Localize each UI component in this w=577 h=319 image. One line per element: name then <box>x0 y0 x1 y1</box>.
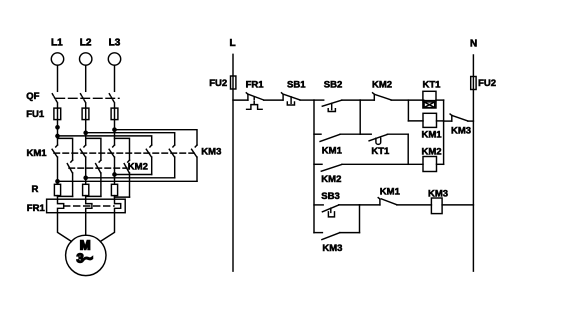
terminal circle L1 <box>51 53 63 65</box>
svg-text:SB3: SB3 <box>321 191 339 202</box>
wire L1 to QF <box>57 65 59 91</box>
svg-text:KM1: KM1 <box>380 187 401 198</box>
terminal circle L3 <box>108 53 120 65</box>
contactor KM3 label <box>201 147 221 158</box>
wire rung1 L to FR1 contact <box>233 99 248 101</box>
wire FR1 to motor phase2 <box>85 213 87 236</box>
pushbutton SB2 NO start <box>314 100 360 111</box>
coil KM2 label <box>422 146 442 157</box>
svg-text:R: R <box>32 184 39 195</box>
terminal circle L2 <box>80 53 92 65</box>
thermal relay FR1 heater phase3 <box>115 199 121 213</box>
wire stub phase3 to KM2 pole3 <box>115 138 130 160</box>
wire bus phase3 to KM3 pole3 <box>115 130 198 145</box>
svg-text:KM3: KM3 <box>451 126 471 137</box>
junction dot phase3 above R <box>113 173 116 176</box>
junction dot phase1 upper <box>56 126 59 129</box>
wire KM3 pole3 out to phase1 node <box>58 180 198 182</box>
contact KM2 NC label <box>372 80 392 91</box>
fuse FU1 label <box>26 109 45 120</box>
coil KM3 <box>431 198 473 214</box>
pushbutton SB1 label <box>287 80 306 91</box>
coil KM3 label <box>428 189 448 200</box>
contact KM3 NC label <box>451 126 471 137</box>
breaker QF label <box>26 91 39 102</box>
contact KM3 NO label branch <box>322 243 342 254</box>
contactor KM1 label <box>27 148 48 159</box>
svg-text:N: N <box>470 39 477 50</box>
contact KM1 NO label rung2 <box>322 145 343 156</box>
breaker QF pole 2 <box>81 94 86 108</box>
contactor KM2 pole 3 <box>124 160 129 197</box>
resistor R phase3 <box>111 184 117 195</box>
svg-text:SB1: SB1 <box>287 80 306 91</box>
wire stub phase2 to KM2 pole2 <box>86 138 101 160</box>
wire R3 to FR1 <box>114 196 116 200</box>
thermal contact FR1 release symbol <box>247 98 263 110</box>
svg-text:L: L <box>230 38 236 49</box>
fuse FU2 on L line <box>231 76 236 89</box>
wire KM3 pole2 out to phase2 node <box>86 177 175 179</box>
junction dot phase1 above R <box>56 180 59 183</box>
contact KM2 NO label rung3 <box>321 174 341 185</box>
contactor KM1 pole 3 <box>109 145 114 184</box>
pushbutton SB3 label <box>321 191 339 202</box>
svg-text:FU2: FU2 <box>478 78 496 89</box>
wire L line <box>232 54 234 271</box>
coil KM1 <box>423 113 444 127</box>
contactor KM1-KM3 mechanical link dashed <box>54 152 194 154</box>
wire stub phase1 to KM2 pole1 <box>58 138 73 160</box>
pushbutton SB3 NO <box>314 205 360 217</box>
svg-text:L3: L3 <box>109 38 121 49</box>
contact KM3 NO parallel SB3 <box>314 233 360 240</box>
svg-text:L2: L2 <box>80 38 92 49</box>
coil KT1 label <box>423 80 442 91</box>
thermal relay FR1 heater phase2 <box>86 199 92 213</box>
svg-text:FR1: FR1 <box>27 203 46 214</box>
contactor KM2 pole 2 <box>96 160 101 196</box>
svg-text:KM2: KM2 <box>372 80 392 91</box>
svg-text:KM1: KM1 <box>322 145 343 156</box>
svg-text:KM2: KM2 <box>321 174 341 185</box>
junction dot phase1 bus <box>56 134 59 137</box>
svg-text:KT1: KT1 <box>371 146 390 157</box>
node N label <box>470 39 477 50</box>
node C vertical wire <box>443 100 445 164</box>
wire R1 to FR1 <box>57 196 59 200</box>
wire rung2 down to KM2 coil rung <box>407 134 409 164</box>
node L2 label <box>80 38 92 49</box>
motor M circle <box>66 235 106 275</box>
svg-text:SB2: SB2 <box>324 80 342 91</box>
thermal relay FR1 link dashed <box>64 205 114 207</box>
svg-text:KM2: KM2 <box>128 162 148 173</box>
svg-text:KM1: KM1 <box>422 130 443 141</box>
wire bus phase2 to KM3 pole2 <box>86 133 175 145</box>
wire R2 to FR1 <box>85 196 87 200</box>
contactor KM2 mechanical link dashed <box>69 167 127 169</box>
svg-text:3∼: 3∼ <box>77 251 94 266</box>
motor 3~ label <box>77 251 94 266</box>
fuse FU1 pole 3 <box>111 108 118 120</box>
svg-text:L1: L1 <box>51 38 63 49</box>
wire phase2 fuse to KM1 contact <box>85 120 87 145</box>
wire KM3 pole1 out to phase3 node <box>115 174 152 176</box>
svg-text:KM1: KM1 <box>27 148 48 159</box>
pushbutton SB1 NC stop <box>282 93 315 105</box>
node L3 label <box>109 38 121 49</box>
breaker QF pole 1 <box>52 94 57 108</box>
contactor KM2 label <box>128 162 148 173</box>
wire L2 to QF <box>85 65 87 91</box>
fuse FU1 pole 1 <box>54 108 61 120</box>
thermal relay FR1 label <box>27 203 46 214</box>
node B vertical wire <box>359 100 361 134</box>
svg-text:KT1: KT1 <box>423 80 442 91</box>
contactor KM1 pole 2 <box>80 145 85 184</box>
svg-text:FU2: FU2 <box>209 78 227 89</box>
wire phase1 fuse to KM1 contact <box>57 120 59 145</box>
contactor KM2 pole 1 <box>67 160 72 196</box>
svg-text:FU1: FU1 <box>26 109 45 120</box>
contact KM2 NO self-hold <box>314 164 423 171</box>
wire L3 to QF <box>114 65 116 91</box>
wire FR1 to motor phase3 <box>100 213 114 242</box>
contactor KM3 pole 3 <box>192 145 197 181</box>
contactor KM3 pole 1 <box>146 145 151 175</box>
motor M label <box>80 238 91 253</box>
coil KM1 label <box>422 130 443 141</box>
fuse FU2 right label <box>478 78 496 89</box>
wire FR1 to motor phase1 <box>58 213 72 242</box>
thermal relay FR1 heater phase1 <box>58 199 64 213</box>
breaker QF mechanical link dashed <box>56 97 119 99</box>
resistor R phase1 <box>54 184 60 195</box>
contact KM3 NC to N <box>444 114 474 121</box>
coil KM2 <box>423 157 444 172</box>
fuse FU2 on N line <box>471 77 476 90</box>
wire KM2 pole2 out to below R2 <box>86 195 101 197</box>
wire N line <box>472 55 474 271</box>
wire KM2 pole3 out to below R3 <box>115 196 130 198</box>
fuse FU1 pole 2 <box>82 108 89 120</box>
wire bus phase1 to KM3 pole1 <box>58 136 152 145</box>
wire phase3 fuse to KM1 contact <box>114 120 116 145</box>
svg-text:FR1: FR1 <box>246 80 265 91</box>
junction dot phase2 above R <box>84 176 87 179</box>
thermal contact FR1 NC label <box>246 80 265 91</box>
thermal relay FR1 box <box>47 199 126 213</box>
svg-text:KM3: KM3 <box>322 243 342 254</box>
fuse FU2 left label <box>209 78 227 89</box>
pushbutton SB2 label <box>324 80 342 91</box>
junction dot phase2 bus <box>84 131 87 134</box>
contact KT1 delayed NO <box>360 134 408 144</box>
contact KT1 delayed NO label <box>371 146 390 157</box>
svg-text:KM2: KM2 <box>422 146 442 157</box>
contact KM1 NO self-hold <box>314 134 360 141</box>
contact KM1 NC interlock <box>360 198 432 205</box>
resistor R phase2 <box>83 184 89 195</box>
contact KM1 NC label rung4 <box>380 187 401 198</box>
contactor KM1 pole 1 <box>52 145 57 184</box>
svg-text:QF: QF <box>26 91 39 102</box>
contact KM2 NC <box>360 93 424 100</box>
node L1 label <box>51 38 63 49</box>
breaker QF pole 3 <box>109 94 114 108</box>
node L label <box>230 38 236 49</box>
wire KM1 coil branch down <box>408 100 423 121</box>
node A vertical wire <box>313 100 315 233</box>
svg-text:KM3: KM3 <box>201 147 221 158</box>
junction dot phase3 bus <box>113 128 116 131</box>
contactor KM3 pole 2 <box>169 145 174 178</box>
resistor R label <box>32 184 39 195</box>
thermal contact FR1 NC <box>246 93 283 100</box>
coil KT1 time relay <box>423 91 444 108</box>
wire KM2 pole1 out to below R1 <box>58 195 73 197</box>
wire parallel branch right vertical <box>359 205 361 233</box>
